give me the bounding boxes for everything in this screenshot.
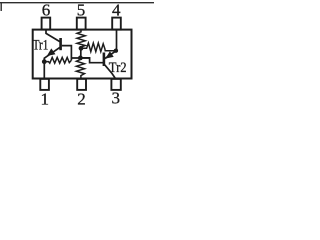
svg-text:5: 5 [77,0,86,19]
resistor R3 (node to pin4 line) [83,43,116,52]
wire: Tr1 base lead [62,46,72,61]
svg-text:Tr1: Tr1 [33,37,49,53]
pin 5 stub [77,18,86,30]
resistor R1 (pin5 to node) [77,30,85,47]
wire: pin4 down to node [116,30,118,51]
svg-text:4: 4 [112,0,121,19]
wire: Tr2 collector to pin3 [105,65,116,79]
wire: pin6 to Tr1 collector [46,30,60,42]
Tr2 emitter arrow [105,51,114,58]
package outline [33,30,132,79]
node E1 junction dot [42,59,47,64]
wire: Tr1 emitter diagonal [44,47,60,79]
resistor R2 (Tr1 base-emitter) [46,57,71,63]
svg-text:6: 6 [42,0,51,19]
svg-text:2: 2 [77,90,86,108]
transistor Tr2 base bar [103,53,106,67]
pin 4 stub [112,18,121,30]
transistor Tr1 base bar [59,38,62,50]
node N1 junction dot [79,46,84,51]
svg-text:1: 1 [40,90,49,108]
wire: node column [80,48,82,58]
node N2 junction dot [78,56,83,61]
pin 2 stub [77,79,86,90]
resistor R4 (node to pin2) [76,59,84,79]
wire: base node horizontal [71,57,89,59]
wire: Tr2 emitter diagonal [105,52,115,59]
node C junction dot [114,49,118,53]
Tr1 emitter arrow [47,48,56,56]
table/frame left rule stub [0,2,2,11]
pin 6 stub [42,18,51,30]
pin 1 stub [40,79,49,90]
wire: Tr2 base lead [80,58,103,63]
pin 3 stub [111,79,120,90]
table/frame top rule [0,2,154,4]
svg-text:3: 3 [112,89,121,108]
